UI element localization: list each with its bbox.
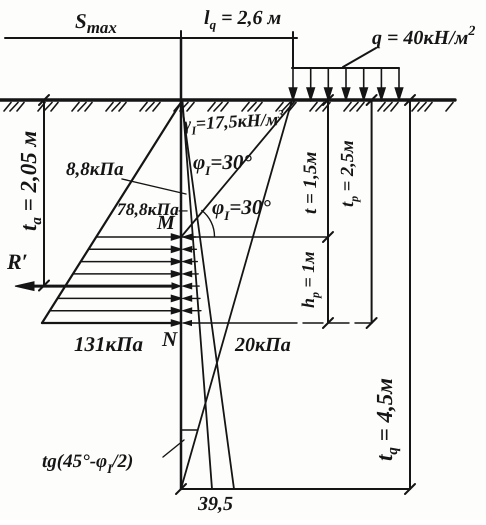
- left dimension line t_a: [43, 100, 45, 286]
- svg-text:t = 1,5м: t = 1,5м: [300, 152, 321, 214]
- svg-text:φI=30°: φI=30°: [193, 150, 252, 178]
- arc of lower phi angle at M: [202, 211, 215, 237]
- active pressure triangle left edge: [42, 102, 182, 323]
- svg-text:39,5: 39,5: [197, 493, 233, 515]
- small width tick near wall bottom: [181, 429, 197, 431]
- top dimension line: [5, 37, 297, 39]
- horizontal line at M level: [181, 236, 328, 238]
- svg-text:tg(45°-φI/2): tg(45°-φI/2): [42, 451, 133, 476]
- leader for tg label: [163, 440, 184, 457]
- svg-text:φI=30°: φI=30°: [212, 195, 271, 223]
- ground hatching: [4, 103, 453, 112]
- svg-text:tp = 2,5м: tp = 2,5м: [338, 140, 361, 207]
- svg-text:20кПа: 20кПа: [234, 334, 291, 356]
- wall: [180, 38, 183, 489]
- right-side pressure arrows: [184, 235, 201, 314]
- svg-text:γI=17,5кН/м3: γI=17,5кН/м3: [183, 107, 285, 138]
- svg-text:78,8кПа–: 78,8кПа–: [117, 199, 188, 219]
- line at N level dashed part: [303, 322, 372, 324]
- line F from load edge to wall base: [182, 100, 293, 487]
- svg-text:M: M: [156, 212, 176, 234]
- line at N level solid part with arrow to wall: [184, 322, 298, 324]
- line G tg(45-phi/2) from wall top: [183, 101, 213, 489]
- surcharge load arrows: [289, 68, 402, 100]
- svg-text:8,8кПа: 8,8кПа: [66, 159, 124, 180]
- svg-text:Smax: Smax: [75, 9, 117, 37]
- svg-text:tq = 4,5м: tq = 4,5м: [372, 378, 401, 461]
- leader for 8,8 kPa label: [122, 179, 186, 194]
- svg-text:q = 40кН/м2: q = 40кН/м2: [372, 24, 475, 49]
- line E from wall top: [182, 101, 235, 489]
- tick at wall on top line: [180, 31, 182, 45]
- ground line: [0, 98, 455, 101]
- line C from M to load edge: [182, 102, 295, 237]
- extension line at load edge: [292, 45, 294, 67]
- svg-text:131кПа: 131кПа: [74, 332, 143, 356]
- left pressure arrows: [42, 234, 181, 326]
- svg-text:N: N: [161, 327, 178, 351]
- resultant R' thick arrow: [15, 282, 181, 291]
- svg-text:lq = 2,6 м: lq = 2,6 м: [204, 7, 281, 32]
- leader to q label: [343, 48, 376, 67]
- svg-text:R′: R′: [6, 249, 28, 274]
- bottom line: [181, 488, 410, 490]
- surcharge load line: [292, 67, 399, 69]
- tick at load edge on top line: [292, 32, 294, 45]
- svg-text:ta = 2,05 м: ta = 2,05 м: [16, 131, 45, 231]
- dimension line 2 (t_p): [371, 100, 373, 323]
- active pressure triangle bottom edge: [42, 322, 181, 324]
- svg-text:hp = 1м: hp = 1м: [298, 251, 322, 308]
- dimension line 3 (t_q): [409, 100, 411, 489]
- dimension line 1 (t, h_p): [327, 100, 329, 323]
